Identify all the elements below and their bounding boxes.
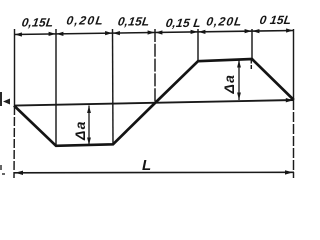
svg-text:0,20L: 0,20L xyxy=(66,14,106,28)
svg-text:Δa: Δa xyxy=(72,120,88,141)
svg-text:Δa: Δa xyxy=(221,74,237,95)
svg-text:0 15L: 0 15L xyxy=(259,13,293,27)
svg-text:L: L xyxy=(142,157,151,174)
svg-text:0,15L: 0,15L xyxy=(21,16,55,30)
svg-text:0,15 L: 0,15 L xyxy=(165,16,202,30)
svg-text:0,20L: 0,20L xyxy=(205,15,243,29)
svg-text:0,15L: 0,15L xyxy=(117,15,151,29)
